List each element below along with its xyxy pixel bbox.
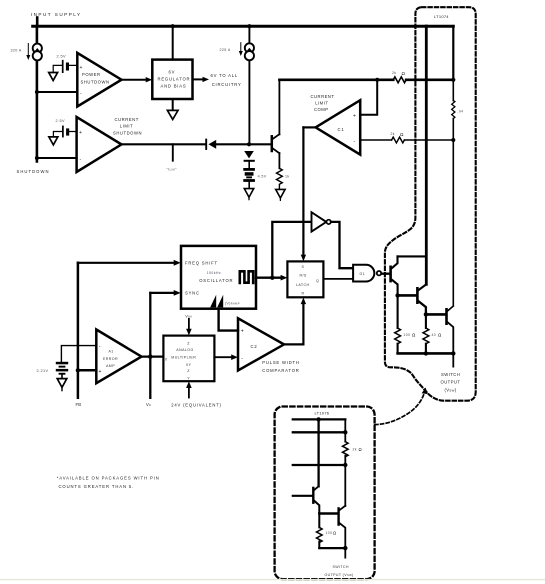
wire A1 output to multiplier X <box>142 354 164 359</box>
wire rail to regulator <box>171 24 175 60</box>
svg-text:4.5V: 4.5V <box>258 174 267 178</box>
battery 4.5V clamp <box>243 168 266 188</box>
svg-text:VC: VC <box>146 402 152 407</box>
svg-text:C2: C2 <box>251 344 258 349</box>
ground below regulator <box>167 99 178 119</box>
wire C2 output to latch R <box>284 298 306 345</box>
svg-text:ANALOG: ANALOG <box>176 348 193 352</box>
node SHUTDOWN label <box>17 169 50 174</box>
transistor Q3 <box>447 306 454 353</box>
transistor Q5 <box>293 486 320 513</box>
svg-text:SWITCH: SWITCH <box>441 372 460 377</box>
wire A1 plus input from FB <box>76 368 97 372</box>
block R/S LATCH <box>287 261 323 297</box>
resistor R5 1k <box>277 168 290 189</box>
op-amp C2 pulse width comparator <box>238 318 284 370</box>
svg-text:XY: XY <box>186 363 192 367</box>
svg-text:SHUTDOWN: SHUTDOWN <box>17 169 50 174</box>
node INPUT SUPPLY label <box>31 12 82 17</box>
transistor Q4 shutdown <box>272 80 280 169</box>
svg-text:2k: 2k <box>391 132 395 136</box>
svg-text:A1: A1 <box>109 350 114 354</box>
svg-text:2k: 2k <box>392 71 396 75</box>
transistor Q2 <box>417 288 426 314</box>
diode clamp arrow <box>244 151 254 168</box>
svg-text:FB: FB <box>76 402 82 407</box>
svg-text:SWITCH: SWITCH <box>333 565 349 569</box>
wire inverter output to G1 <box>331 222 353 268</box>
block 6V REGULATOR AND BIAS <box>152 60 192 99</box>
dashed box LT1076 outline <box>275 407 375 580</box>
reference 2.21V <box>37 346 97 379</box>
svg-text:Ω: Ω <box>402 71 406 76</box>
svg-text:320 A: 320 A <box>11 49 22 53</box>
icon square wave <box>240 271 253 283</box>
node VC pin <box>146 402 152 407</box>
wire oscillator output to latch <box>256 275 287 281</box>
rule faint bottom line <box>0 579 545 580</box>
wire C1 output to latch S <box>301 127 316 261</box>
svg-text:2k: 2k <box>353 448 357 452</box>
wire VC line <box>149 293 151 398</box>
dashed box LT1074 outline <box>385 7 476 401</box>
svg-text:100: 100 <box>404 333 411 337</box>
wire sense rail vertical <box>452 26 455 306</box>
svg-text:PULSE WIDTH: PULSE WIDTH <box>262 360 299 365</box>
svg-text:225 A: 225 A <box>220 48 231 52</box>
ground below clamp <box>244 189 253 200</box>
svg-text:"ILIM": "ILIM" <box>167 168 178 172</box>
diode D1 <box>206 140 271 149</box>
svg-text:Ω: Ω <box>400 132 404 137</box>
svg-text:C1: C1 <box>338 127 345 132</box>
resistor R7 <box>316 514 336 549</box>
svg-text:Ω: Ω <box>333 531 336 536</box>
current source I2 <box>239 24 254 144</box>
wire current sense top line <box>279 77 455 83</box>
svg-text:2.5V: 2.5V <box>56 119 65 123</box>
op-amp comparator POWER SHUTDOWN <box>77 53 121 107</box>
svg-text:R/S: R/S <box>300 273 307 277</box>
op-amp comparator CURRENT LIMIT SHUTDOWN <box>77 117 142 172</box>
wire LT1076 bottom rail <box>319 546 347 550</box>
svg-text:+: + <box>353 114 356 120</box>
wire oscillator output branch to inverter <box>272 222 311 278</box>
resistor R4 <box>423 314 442 355</box>
node Q5 emitter junction <box>319 512 337 514</box>
value label sense resistor <box>458 110 464 114</box>
svg-text:100kHz: 100kHz <box>207 271 222 275</box>
wire comparator2 output <box>122 143 206 145</box>
svg-text:+: + <box>99 369 102 375</box>
label PULSE WIDTH COMPARATOR <box>262 360 299 373</box>
svg-text:Y: Y <box>187 376 190 380</box>
wire FB line <box>77 263 80 398</box>
ground below 2.21V <box>57 379 67 391</box>
svg-text:.04: .04 <box>458 110 464 114</box>
svg-text:OSCILLATOR: OSCILLATOR <box>199 278 233 283</box>
svg-text:CURRENT: CURRENT <box>311 94 335 99</box>
note footnote <box>57 476 160 490</box>
svg-text:40: 40 <box>432 333 437 337</box>
svg-text:LIMIT: LIMIT <box>120 124 133 129</box>
svg-text:COMP: COMP <box>314 107 329 112</box>
wire SYNC input from VC line <box>150 290 180 296</box>
svg-text:+: + <box>80 65 83 71</box>
svg-text:Ω: Ω <box>438 333 442 338</box>
svg-text:24V (EQUIVALENT): 24V (EQUIVALENT) <box>171 402 221 407</box>
svg-text:Z: Z <box>187 369 190 373</box>
svg-text:1k: 1k <box>285 175 290 179</box>
svg-text:LT1074: LT1074 <box>434 14 449 19</box>
transistor Q1 <box>382 267 398 296</box>
wire comparator2 minus input / SHUTDOWN pin <box>35 156 77 160</box>
value label 320uA <box>11 49 22 53</box>
svg-text:COMPARATOR: COMPARATOR <box>262 368 299 373</box>
resistor R3 <box>395 295 416 353</box>
op-amp C1 CURRENT LIMIT COMP <box>311 94 361 155</box>
svg-text:(VSW): (VSW) <box>445 387 457 392</box>
svg-text:OUTPUT (VSW): OUTPUT (VSW) <box>325 573 354 577</box>
svg-text:SHUTDOWN: SHUTDOWN <box>81 80 110 85</box>
block FREQ SHIFT 100kHz OSCILLATOR <box>181 246 256 309</box>
svg-text:Q: Q <box>316 279 319 283</box>
wire LT1076 pin stub 2 <box>293 430 348 434</box>
svg-text:AMP: AMP <box>106 364 115 368</box>
node 24V EQUIVALENT arrow <box>171 381 221 407</box>
node Q1 emitter junction <box>395 293 416 297</box>
svg-text:R: R <box>302 292 305 296</box>
wire regulator output 6V TO ALL CIRCUITRY <box>193 73 242 87</box>
svg-text:Z: Z <box>187 341 190 345</box>
transistor Q6 <box>339 506 346 558</box>
wire left rail <box>36 26 39 162</box>
wire latch Q output <box>323 278 353 280</box>
svg-text:REGULATOR: REGULATOR <box>158 77 191 82</box>
wire input supply stub <box>36 18 39 27</box>
svg-text:Ω: Ω <box>412 333 416 338</box>
reference 2.5V at comparator 1 <box>49 55 78 81</box>
wire freq shift input from FB <box>78 260 181 266</box>
wire LT1076 mid vertical <box>317 419 319 486</box>
node SWITCH OUTPUT VSW label <box>441 372 461 392</box>
wire comparator1 minus input <box>35 90 77 94</box>
wire C1 plus tap <box>360 78 379 115</box>
svg-text:AND BIAS: AND BIAS <box>161 84 187 89</box>
op-amp A1 error amp <box>96 330 141 384</box>
svg-text:SHUTDOWN: SHUTDOWN <box>113 131 142 136</box>
wire Q1 collector branch <box>392 256 427 268</box>
svg-text:(V)RAMP: (V)RAMP <box>225 302 240 306</box>
wire ramp to C2 plus <box>219 309 238 331</box>
svg-text:LIMIT: LIMIT <box>315 101 328 106</box>
svg-text:LT1076: LT1076 <box>315 411 330 416</box>
svg-text:ERROR: ERROR <box>103 357 118 361</box>
node LT1076 SWITCH OUTPUT label <box>325 565 354 577</box>
svg-text:2.5V: 2.5V <box>57 55 66 59</box>
label LT1076 <box>315 411 330 416</box>
svg-text:2.21V: 2.21V <box>37 369 49 373</box>
wire VIN vertical inside box <box>419 26 427 290</box>
svg-text:S: S <box>302 265 305 269</box>
svg-text:CIRCUITRY: CIRCUITRY <box>212 82 242 87</box>
wire comparator1 output with arrow <box>122 77 153 82</box>
svg-text:OUTPUT: OUTPUT <box>441 380 461 385</box>
node ILIM pin <box>167 144 178 171</box>
block ANALOG MULTIPLIER <box>163 336 214 382</box>
wire multiplier output to C2 minus <box>214 354 237 360</box>
node junction comp2 output / clamp <box>247 142 251 146</box>
inverter gate <box>312 212 331 231</box>
svg-text:LATCH: LATCH <box>296 283 310 287</box>
wire LT1076 pin stub 3 <box>293 463 348 467</box>
svg-text:Ω: Ω <box>359 447 362 452</box>
svg-text:X: X <box>165 357 168 361</box>
svg-text:POWER: POWER <box>82 72 101 77</box>
wire top supply rail <box>33 25 454 28</box>
current source I1 <box>26 44 42 61</box>
node FB pin <box>76 402 82 407</box>
svg-text:FREQ SHIFT: FREQ SHIFT <box>185 261 218 266</box>
label LT1074 <box>434 14 449 19</box>
svg-text:+: + <box>79 130 82 136</box>
value label R1 <box>392 71 406 76</box>
svg-text:COUNTS GREATER THAN 5.: COUNTS GREATER THAN 5. <box>59 484 135 489</box>
node VIN label and arrow <box>185 315 192 336</box>
wire LT1076 pin stub 1 <box>293 417 346 421</box>
svg-text:G1: G1 <box>360 272 366 276</box>
svg-text:100: 100 <box>326 531 333 535</box>
svg-text:*AVAILABLE ON PACKAGES WITH PI: *AVAILABLE ON PACKAGES WITH PIN <box>57 476 160 481</box>
callout squiggle to LT1076 <box>375 388 428 425</box>
value label 225uA <box>220 48 231 52</box>
wire current sense bottom line <box>360 137 455 143</box>
gate G1 NAND <box>353 265 389 282</box>
ground below R5 <box>276 189 285 200</box>
svg-text:6V: 6V <box>169 70 176 75</box>
svg-text:MULTIPLIER: MULTIPLIER <box>171 356 196 360</box>
svg-text:CURRENT: CURRENT <box>115 117 139 122</box>
value label R2 <box>391 132 405 137</box>
wire output emitter rail <box>398 351 456 366</box>
svg-text:SYNC: SYNC <box>185 291 200 296</box>
svg-text:+: + <box>241 329 244 335</box>
node Q2 emitter junction <box>424 312 446 316</box>
reference 2.5V at comparator 2 <box>49 119 77 145</box>
icon ramp M <box>210 295 240 308</box>
resistor R6 <box>342 419 361 506</box>
svg-text:6V TO ALL: 6V TO ALL <box>211 73 239 78</box>
